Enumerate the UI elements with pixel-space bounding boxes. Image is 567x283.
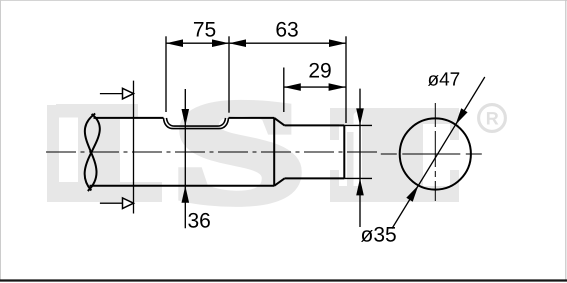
shaft top edge right of groove	[229, 117, 275, 119]
dimension 75 left arrow	[166, 39, 183, 47]
extension tick shank bottom	[344, 177, 372, 179]
dimension line diameter35 vertical	[359, 89, 361, 227]
shaft end face	[273, 118, 275, 186]
reference leader top	[100, 93, 123, 95]
dimension 75 right arrow	[212, 39, 229, 47]
extension line B groove right	[228, 36, 230, 112]
dimension 29 right arrow	[329, 83, 346, 91]
dimension d35 up arrow	[356, 178, 364, 195]
svg-text:36: 36	[188, 210, 211, 233]
watermark letter I inline channel	[354, 112, 363, 183]
page border bottom	[0, 279, 567, 281]
centerline horizontal of end-view circle	[381, 153, 482, 155]
shaft bottom edge	[90, 185, 275, 187]
extension line A groove left	[165, 36, 167, 112]
extension line C shank end	[345, 36, 347, 123]
svg-text:ø35: ø35	[361, 224, 397, 247]
shaft break S-curve 2	[85, 114, 100, 191]
small cylinder bottom edge	[285, 177, 345, 179]
small cylinder end face	[343, 125, 345, 178]
chamfer top	[274, 118, 284, 126]
groove inner line	[167, 118, 226, 126]
reference leader bottom	[100, 202, 123, 204]
dimension 29 left arrow	[284, 83, 301, 91]
centerline of shaft	[46, 151, 378, 153]
watermark registered trademark symbol	[479, 105, 506, 132]
dimension line 36 vertical	[184, 89, 186, 228]
reference open arrow top	[123, 88, 134, 99]
page border left	[0, 0, 2, 281]
end view circle	[400, 118, 471, 189]
svg-text:R: R	[486, 109, 499, 129]
small cylinder top edge	[285, 124, 345, 126]
dimension 63 right arrow	[329, 39, 346, 47]
diameter leader diagonal	[392, 77, 485, 229]
page border right	[565, 0, 567, 281]
extension line 29 left	[283, 68, 285, 113]
extension tick shank top	[344, 124, 372, 126]
dimension 63 left arrow	[229, 39, 246, 47]
svg-text:63: 63	[275, 19, 298, 42]
page border top	[0, 0, 567, 2]
watermark letter I	[330, 108, 459, 202]
watermark letter S	[173, 71, 305, 233]
svg-text:ø47: ø47	[428, 69, 461, 90]
reference open arrow bottom	[123, 198, 134, 209]
svg-text:29: 29	[308, 60, 331, 83]
dimension line 75 and 63	[166, 42, 346, 44]
centerline vertical of end-view circle	[434, 103, 436, 201]
dimension line 29	[284, 86, 346, 88]
d35 leader arrow	[406, 185, 418, 202]
d47 leader arrow	[456, 108, 468, 125]
dimension 36 up arrow	[182, 186, 190, 203]
chamfer bottom	[274, 178, 284, 185]
groove outer line	[164, 118, 229, 129]
watermark letter L	[47, 104, 162, 202]
svg-text:75: 75	[193, 19, 216, 42]
dimension d35 down arrow	[356, 108, 364, 125]
insertion reference line	[133, 81, 135, 214]
dimension 36 down arrow	[182, 109, 190, 126]
shaft break S-curve 1	[85, 114, 97, 192]
shaft top edge left of groove	[94, 117, 164, 119]
